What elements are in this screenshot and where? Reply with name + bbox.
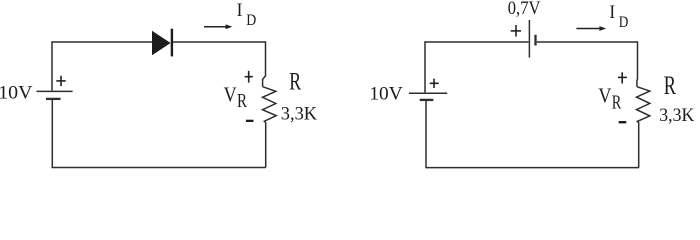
- wire: right circuit top-right segment from 0,7V battery: [537, 41, 638, 43]
- battery V2 10V long plate: [409, 92, 447, 94]
- svg-text:I: I: [609, 3, 615, 23]
- wire: left circuit bottom: [52, 167, 266, 169]
- minus sign V_R right: [619, 121, 627, 123]
- svg-text:R: R: [664, 71, 677, 100]
- battery V3 0,7V short plate (vertical): [534, 35, 536, 46]
- plus sign battery V1: [56, 76, 65, 86]
- svg-text:V: V: [224, 82, 237, 106]
- svg-text:R: R: [237, 91, 247, 112]
- wire: right circuit left side upper: [424, 41, 426, 92]
- wire: right circuit right side upper: [636, 41, 639, 86]
- wire: left circuit left side upper: [51, 41, 53, 90]
- svg-text:3,3K: 3,3K: [281, 104, 318, 125]
- plus sign battery V2: [430, 79, 439, 88]
- plus sign V_R left: [245, 71, 253, 83]
- wire: right circuit top-left segment to 0,7V battery: [425, 41, 529, 43]
- diode D1 cathode bar: [171, 29, 173, 57]
- wire: left circuit left side lower: [51, 100, 53, 168]
- svg-text:10V: 10V: [0, 83, 33, 104]
- battery V3 0,7V long plate (vertical): [528, 20, 530, 58]
- wire: right circuit left side lower: [425, 101, 427, 168]
- svg-text:0,7V: 0,7V: [508, 0, 541, 19]
- wire: right circuit bottom: [425, 167, 639, 169]
- svg-text:R: R: [612, 92, 622, 113]
- svg-text:R: R: [289, 68, 301, 95]
- wire: left circuit top, diode to right corner: [173, 41, 266, 43]
- arrow for current I_D left: [204, 26, 227, 28]
- diode D1 triangle: [152, 31, 171, 56]
- wire: left circuit right side upper with jog: [263, 41, 266, 86]
- battery V2 10V short plate: [420, 99, 434, 101]
- minus sign V_R left: [246, 120, 254, 122]
- plus sign battery V3: [511, 25, 521, 36]
- svg-text:3,3K: 3,3K: [659, 105, 694, 126]
- svg-text:I: I: [237, 1, 243, 21]
- battery V1 10V short plate: [46, 98, 61, 100]
- resistor R1 zigzag 3,3K: [263, 87, 277, 168]
- svg-text:D: D: [246, 12, 256, 29]
- svg-text:V: V: [598, 84, 611, 108]
- svg-text:10V: 10V: [369, 84, 403, 105]
- resistor R2 zigzag 3,3K: [637, 87, 650, 168]
- wire: left circuit top, battery to diode: [52, 41, 152, 43]
- plus sign V_R right: [618, 72, 627, 83]
- arrow for current I_D right: [576, 28, 600, 30]
- battery V1 10V long plate: [37, 90, 73, 92]
- svg-text:D: D: [619, 14, 629, 31]
